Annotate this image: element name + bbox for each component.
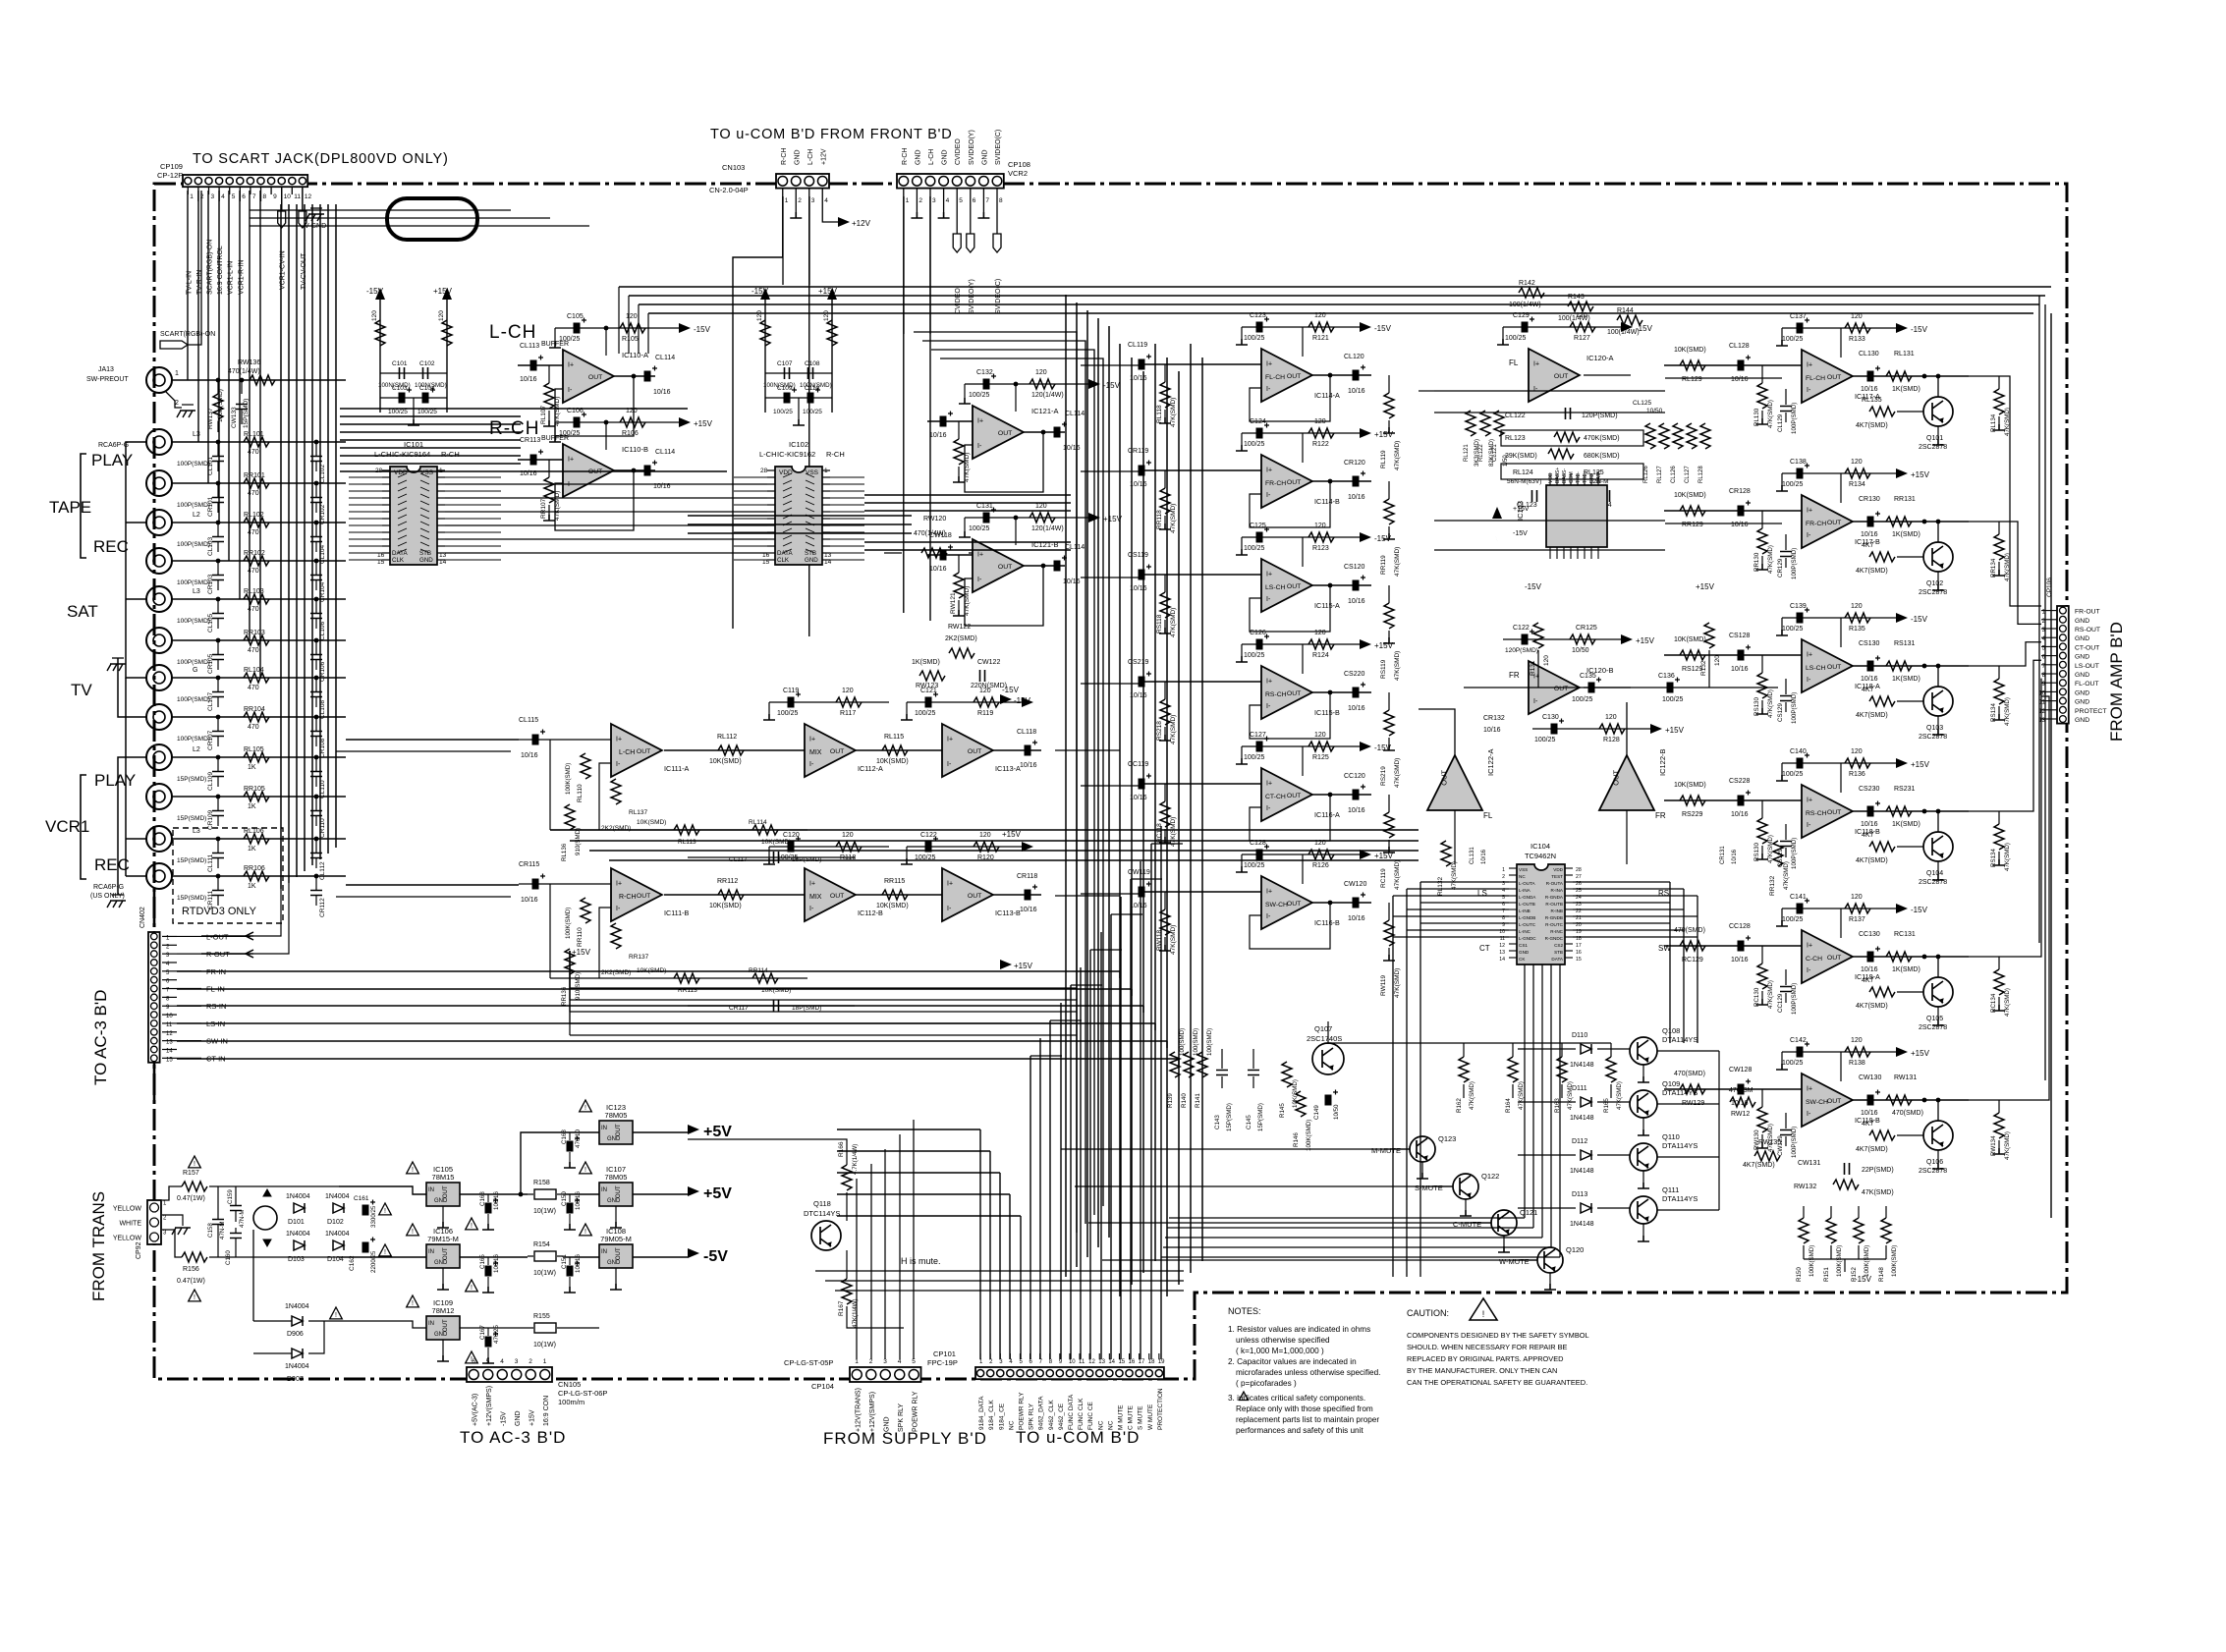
svg-text:10K(SMD): 10K(SMD)	[761, 839, 791, 846]
svg-text:12: 12	[1088, 1359, 1095, 1365]
svg-text:VSS: VSS	[1519, 867, 1528, 872]
svg-text:CL114: CL114	[655, 449, 675, 456]
svg-text:IN: IN	[601, 1187, 607, 1193]
svg-text:OUT: OUT	[1827, 520, 1841, 526]
svg-text:C122: C122	[1513, 625, 1530, 632]
svg-text:IC111-B: IC111-B	[664, 909, 690, 917]
svg-text:CR131: CR131	[1720, 846, 1726, 864]
svg-text:OUT: OUT	[968, 748, 981, 755]
svg-text:100P(SMD): 100P(SMD)	[1791, 548, 1798, 579]
svg-text:+15V: +15V	[1636, 636, 1655, 645]
svg-text:19: 19	[1158, 1359, 1165, 1365]
svg-text:I-: I-	[1266, 386, 1271, 393]
svg-text:R155: R155	[533, 1313, 550, 1320]
svg-text:G: G	[193, 667, 197, 674]
svg-text:DTA114YS: DTA114YS	[1662, 1035, 1697, 1044]
svg-text:10/16: 10/16	[1483, 727, 1501, 734]
svg-text:I-: I-	[1266, 805, 1271, 812]
svg-text:I-: I-	[616, 906, 621, 912]
svg-text:FR-CH: FR-CH	[1265, 480, 1286, 487]
svg-text:C141: C141	[1790, 894, 1807, 901]
svg-text:!: !	[412, 1167, 414, 1174]
svg-text:3: 3	[211, 193, 215, 200]
svg-text:47K(SMD): 47K(SMD)	[1518, 1081, 1525, 1110]
svg-text:C130: C130	[1542, 714, 1559, 721]
svg-text:120: 120	[1851, 603, 1863, 610]
svg-text:1N4148: 1N4148	[1570, 1115, 1594, 1122]
svg-text:VDD: VDD	[394, 469, 408, 476]
svg-text:C135: C135	[1580, 673, 1596, 680]
svg-text:100P(SMD): 100P(SMD)	[1791, 1127, 1798, 1158]
svg-text:11: 11	[1079, 1359, 1085, 1365]
svg-text:4: 4	[221, 193, 225, 200]
svg-text:CW133: CW133	[231, 407, 238, 428]
svg-text:1N4004: 1N4004	[286, 1231, 310, 1238]
svg-text:I+: I+	[1266, 571, 1272, 578]
svg-text:I+: I+	[1266, 888, 1272, 895]
svg-text:R162: R162	[1456, 1098, 1463, 1113]
svg-text:L3: L3	[193, 431, 200, 438]
svg-text:Q123: Q123	[1438, 1134, 1456, 1143]
svg-text:C125: C125	[1250, 523, 1266, 529]
svg-text:RC118: RC118	[1156, 823, 1163, 843]
svg-text:9462_CLK: 9462_CLK	[1048, 1400, 1055, 1430]
svg-text:IC110-B: IC110-B	[622, 445, 648, 454]
svg-text:100K(SMD): 100K(SMD)	[1864, 1245, 1870, 1277]
svg-text:GND: GND	[434, 1260, 448, 1266]
svg-text:RW119: RW119	[1380, 975, 1387, 996]
svg-text:1N4004: 1N4004	[285, 1363, 309, 1370]
svg-text:FROM SUPPLY B'D: FROM SUPPLY B'D	[823, 1429, 987, 1448]
svg-text:I-: I-	[616, 761, 621, 768]
svg-text:Q102: Q102	[1926, 580, 1943, 587]
svg-text:100K(SMD): 100K(SMD)	[1809, 1245, 1815, 1277]
svg-text:100(SMD): 100(SMD)	[1206, 1028, 1213, 1056]
svg-text:120: 120	[438, 310, 445, 321]
svg-text:L2: L2	[193, 512, 200, 519]
svg-text:10/16: 10/16	[1861, 676, 1878, 683]
svg-text:100P(SMD): 100P(SMD)	[1791, 838, 1798, 869]
svg-text:CW120: CW120	[1344, 881, 1366, 888]
svg-text:R123: R123	[1312, 545, 1329, 552]
svg-text:1: 1	[785, 197, 789, 204]
svg-text:+12V: +12V	[820, 148, 827, 165]
svg-text:28: 28	[1576, 867, 1582, 873]
svg-text:RL114: RL114	[749, 819, 767, 826]
svg-text:DTC114YS: DTC114YS	[804, 1209, 840, 1218]
svg-text:OUT: OUT	[616, 1185, 622, 1198]
svg-text:R138: R138	[1849, 1060, 1865, 1067]
svg-text:120: 120	[371, 310, 378, 321]
svg-text:10K(SMD): 10K(SMD)	[1674, 347, 1706, 354]
svg-text:GND: GND	[2075, 672, 2089, 679]
svg-text:L3: L3	[193, 828, 200, 835]
svg-text:L-GNDB: L-GNDB	[1519, 915, 1535, 920]
svg-text:SVIDEO(C): SVIDEO(C)	[995, 279, 1002, 314]
svg-text:470(1/4W): 470(1/4W)	[228, 368, 260, 375]
svg-text:Q104: Q104	[1926, 870, 1943, 877]
svg-text:CL119: CL119	[1128, 342, 1147, 349]
svg-text:+12V(TRANS): +12V(TRANS)	[855, 1388, 862, 1432]
svg-text:470/10: 470/10	[575, 1129, 582, 1148]
svg-text:+12V: +12V	[852, 219, 871, 228]
svg-text:IC113-B: IC113-B	[995, 909, 1021, 917]
svg-text:100P(SMD): 100P(SMD)	[177, 502, 210, 509]
svg-text:OUT: OUT	[1287, 901, 1301, 908]
svg-text:RR134: RR134	[1990, 558, 1997, 578]
svg-text:RL119: RL119	[1380, 450, 1387, 468]
svg-text:!: !	[1482, 1309, 1485, 1319]
svg-text:RL132: RL132	[1437, 876, 1444, 896]
svg-text:100K(SMD): 100K(SMD)	[1891, 1245, 1898, 1277]
svg-text:CL113: CL113	[520, 343, 539, 350]
svg-text:DATA: DATA	[1551, 957, 1564, 962]
svg-text:3: 3	[811, 197, 815, 204]
svg-text:DTA114YS: DTA114YS	[1662, 1194, 1697, 1203]
svg-text:100/16: 100/16	[493, 1191, 500, 1210]
svg-text:H is mute.: H is mute.	[901, 1256, 941, 1266]
svg-text:NOTES:: NOTES:	[1228, 1306, 1261, 1316]
svg-text:4K7: 4K7	[1862, 687, 1874, 693]
svg-text:MIX: MIX	[809, 749, 822, 756]
svg-text:100/25: 100/25	[1782, 626, 1804, 633]
svg-text:RR112: RR112	[717, 878, 738, 885]
svg-text:I-: I-	[568, 387, 573, 394]
svg-text:-15V: -15V	[366, 287, 384, 296]
svg-text:I-: I-	[1533, 698, 1538, 705]
svg-text:7: 7	[252, 193, 256, 200]
svg-text:RS218: RS218	[1156, 721, 1163, 741]
svg-text:CW130: CW130	[1859, 1074, 1881, 1081]
svg-text:4K7(SMD): 4K7(SMD)	[1743, 1162, 1775, 1169]
svg-text:( k=1,000 M=1,000,000 ): ( k=1,000 M=1,000,000 )	[1236, 1347, 1324, 1355]
svg-text:FL-CH: FL-CH	[1265, 374, 1285, 381]
svg-text:120: 120	[842, 688, 854, 694]
svg-text:PLAY: PLAY	[91, 451, 133, 469]
svg-text:R141: R141	[1195, 1093, 1201, 1108]
svg-text:C MUTE: C MUTE	[1128, 1404, 1135, 1430]
svg-text:13: 13	[1499, 950, 1505, 956]
svg-text:17: 17	[1139, 1359, 1145, 1365]
svg-text:TO u-COM B'D FROM FRONT B'D: TO u-COM B'D FROM FRONT B'D	[710, 127, 953, 142]
svg-text:( p=picofarades ): ( p=picofarades )	[1236, 1379, 1297, 1388]
svg-text:CP92: CP92	[136, 1241, 142, 1259]
svg-text:120: 120	[1543, 655, 1550, 666]
svg-text:3. indicates critical safet: 3. indicates critical safety components.	[1228, 1394, 1365, 1403]
svg-text:16: 16	[1129, 1359, 1136, 1365]
svg-text:GND: GND	[607, 1136, 621, 1142]
svg-text:TV: TV	[71, 681, 92, 699]
svg-text:D907: D907	[287, 1376, 304, 1383]
svg-text:OUT: OUT	[588, 374, 602, 381]
svg-text:+15V: +15V	[694, 419, 713, 428]
svg-text:6: 6	[242, 193, 246, 200]
svg-text:C160: C160	[225, 1250, 232, 1265]
svg-text:+15V: +15V	[1014, 962, 1033, 970]
svg-text:100/25: 100/25	[969, 525, 990, 532]
svg-text:CT: CT	[1479, 944, 1490, 953]
svg-text:RL129: RL129	[1682, 376, 1702, 383]
svg-text:-15V: -15V	[1911, 906, 1928, 914]
svg-text:910(SMD): 910(SMD)	[575, 972, 582, 1000]
svg-text:4K7: 4K7	[1862, 1121, 1874, 1128]
svg-text:47K(SMD): 47K(SMD)	[1170, 925, 1177, 955]
svg-text:OUT: OUT	[1827, 1098, 1841, 1105]
svg-text:10(1W): 10(1W)	[533, 1270, 556, 1277]
svg-text:FR-OUT: FR-OUT	[2075, 609, 2100, 616]
svg-text:CR130: CR130	[1859, 496, 1880, 503]
svg-text:RL123: RL123	[1505, 435, 1526, 442]
svg-text:GND: GND	[607, 1260, 621, 1266]
svg-text:RC129: RC129	[1682, 957, 1703, 964]
svg-text:!: !	[194, 1294, 195, 1301]
svg-text:Q121: Q121	[1520, 1208, 1537, 1217]
svg-text:47K(SMD): 47K(SMD)	[1767, 400, 1774, 428]
svg-text:470K(SMD): 470K(SMD)	[1584, 435, 1620, 442]
svg-text:R117: R117	[840, 710, 856, 717]
svg-text:SPK RLY: SPK RLY	[898, 1404, 905, 1432]
svg-text:CC119: CC119	[1128, 761, 1148, 768]
svg-text:120(1/4W): 120(1/4W)	[1031, 525, 1064, 532]
svg-text:RW135: RW135	[1758, 1139, 1781, 1146]
svg-text:I+: I+	[568, 361, 574, 368]
svg-text:I+: I+	[616, 880, 622, 887]
svg-text:100/25: 100/25	[1662, 696, 1684, 703]
svg-text:C132: C132	[976, 369, 993, 376]
svg-text:10/16: 10/16	[1861, 1110, 1878, 1117]
svg-text:C110: C110	[805, 385, 819, 392]
svg-text:GND: GND	[2075, 618, 2089, 625]
svg-text:C107: C107	[777, 360, 793, 367]
svg-text:15P(SMD): 15P(SMD)	[1257, 1103, 1264, 1131]
svg-text:Q101: Q101	[1926, 435, 1943, 442]
svg-text:39K(SMD): 39K(SMD)	[1505, 453, 1537, 460]
svg-text:(US ONLY): (US ONLY)	[90, 893, 125, 900]
svg-text:C165: C165	[479, 1254, 486, 1269]
svg-text:D110: D110	[1572, 1032, 1587, 1039]
svg-text:10/16: 10/16	[1861, 531, 1878, 538]
svg-text:+5V: +5V	[703, 1124, 732, 1140]
svg-text:RS219: RS219	[1380, 766, 1387, 786]
svg-text:100(SMD): 100(SMD)	[1179, 1028, 1186, 1056]
svg-text:-15V: -15V	[500, 1411, 507, 1426]
svg-text:-15V: -15V	[1855, 1275, 1872, 1284]
svg-text:OUT: OUT	[637, 748, 650, 755]
svg-text:120: 120	[1314, 418, 1326, 425]
svg-text:10/16: 10/16	[929, 566, 947, 573]
svg-text:10/16: 10/16	[1020, 762, 1037, 769]
svg-text:C158: C158	[207, 1223, 214, 1238]
svg-text:100/25: 100/25	[1505, 335, 1527, 342]
svg-text:C142: C142	[1790, 1037, 1807, 1044]
svg-text:OUT: OUT	[1287, 793, 1301, 799]
svg-text:-15V: -15V	[1525, 582, 1542, 591]
svg-text:VCR1: VCR1	[45, 817, 89, 836]
svg-text:IC111-A: IC111-A	[664, 764, 690, 773]
svg-text:I-: I-	[1807, 387, 1811, 394]
svg-text:10/16: 10/16	[521, 897, 538, 904]
svg-text:R-CH: R-CH	[781, 148, 788, 166]
svg-text:R135: R135	[1849, 626, 1865, 633]
svg-text:OUT: OUT	[1287, 583, 1301, 590]
svg-text:!: !	[584, 1167, 586, 1174]
svg-text:C124: C124	[1250, 418, 1266, 425]
svg-text:RL135: RL135	[1862, 397, 1882, 404]
svg-text:RW12: RW12	[1731, 1111, 1750, 1118]
svg-text:16:9 CON: 16:9 CON	[543, 1396, 550, 1426]
svg-text:R157: R157	[183, 1170, 199, 1177]
svg-text:L-CH: L-CH	[619, 749, 635, 756]
svg-text:2: 2	[1502, 874, 1505, 880]
svg-text:RR107: RR107	[540, 498, 547, 519]
svg-text:IC110-A: IC110-A	[622, 351, 648, 359]
svg-text:NC: NC	[1519, 874, 1526, 879]
svg-text:L-INB: L-INB	[1519, 909, 1530, 913]
svg-text:R132: R132	[1700, 660, 1707, 676]
svg-text:1: 1	[543, 1358, 547, 1365]
svg-text:CL118: CL118	[1017, 729, 1036, 736]
svg-text:C105: C105	[567, 313, 584, 320]
svg-text:L-CH: L-CH	[759, 450, 777, 459]
svg-text:47K(SMD): 47K(SMD)	[1862, 1189, 1894, 1196]
svg-text:C167: C167	[479, 1325, 486, 1340]
svg-text:GND: GND	[1519, 950, 1530, 955]
svg-text:Q120: Q120	[1566, 1245, 1584, 1254]
svg-text:OUT: OUT	[998, 430, 1012, 437]
svg-text:D111: D111	[1572, 1085, 1587, 1092]
svg-text:I-: I-	[809, 906, 814, 912]
svg-text:CL122: CL122	[1505, 413, 1526, 419]
svg-text:CS230: CS230	[1859, 786, 1880, 793]
svg-text:RS: RS	[1658, 889, 1669, 898]
svg-text:R-CH: R-CH	[902, 148, 909, 166]
svg-text:120: 120	[979, 688, 991, 694]
svg-text:470(SMD): 470(SMD)	[1674, 1071, 1705, 1077]
svg-text:100/25: 100/25	[1244, 754, 1265, 761]
svg-text:10(1W): 10(1W)	[533, 1208, 556, 1215]
svg-text:SVIDEO(Y): SVIDEO(Y)	[969, 130, 975, 165]
svg-text:CS219: CS219	[1128, 659, 1149, 666]
svg-text:IC115-A: IC115-A	[1314, 601, 1340, 610]
svg-text:CR115: CR115	[519, 861, 539, 868]
svg-text:1K: 1K	[248, 803, 256, 810]
svg-text:BASS-: BASS-	[1562, 468, 1568, 483]
svg-text:CP-12P: CP-12P	[157, 171, 183, 180]
svg-text:15: 15	[1576, 957, 1582, 963]
svg-text:+5V(AC-3): +5V(AC-3)	[472, 1394, 478, 1426]
svg-text:9184_CLK: 9184_CLK	[988, 1400, 995, 1430]
svg-text:100K(SMD): 100K(SMD)	[565, 908, 572, 939]
svg-text:OUT: OUT	[1612, 770, 1621, 786]
svg-text:RR110: RR110	[577, 927, 584, 947]
svg-text:1: 1	[906, 197, 910, 204]
svg-text:L-CH: L-CH	[489, 322, 536, 343]
svg-text:R105: R105	[622, 336, 639, 343]
svg-text:FUNC DATA: FUNC DATA	[1068, 1394, 1075, 1430]
svg-text:IC114-A: IC114-A	[1314, 391, 1340, 400]
svg-text:OUT: OUT	[998, 564, 1012, 571]
svg-text:SPK RLY: SPK RLY	[1029, 1403, 1035, 1430]
svg-text:10/16: 10/16	[1731, 811, 1749, 818]
svg-text:IN: IN	[428, 1321, 434, 1327]
svg-text:R158: R158	[533, 1180, 550, 1186]
svg-text:CL125: CL125	[1633, 400, 1652, 407]
svg-text:I+: I+	[809, 880, 815, 887]
svg-text:RL128: RL128	[1698, 466, 1704, 483]
svg-text:10: 10	[1069, 1359, 1076, 1365]
svg-text:47N-M: 47N-M	[219, 1221, 226, 1239]
svg-text:100P(SMD): 100P(SMD)	[177, 461, 210, 468]
svg-text:CS228: CS228	[1729, 778, 1751, 785]
svg-text:RCA6P-G: RCA6P-G	[98, 442, 129, 449]
svg-text:CL111: CL111	[207, 854, 214, 872]
svg-text:L-OUTB: L-OUTB	[1519, 902, 1535, 907]
svg-text:4: 4	[946, 197, 950, 204]
svg-text:FPC-19P: FPC-19P	[927, 1358, 958, 1367]
svg-text:LS: LS	[1477, 889, 1487, 898]
svg-text:S-MUTE: S-MUTE	[1415, 1184, 1443, 1192]
svg-text:I-: I-	[1533, 386, 1538, 393]
svg-text:CR109: CR109	[207, 809, 214, 830]
svg-text:RR131: RR131	[1894, 496, 1916, 503]
svg-text:CR132: CR132	[1483, 715, 1505, 722]
svg-text:RC130: RC130	[1753, 987, 1760, 1007]
svg-text:120: 120	[756, 310, 763, 321]
svg-text:R-INB: R-INB	[1550, 909, 1563, 913]
svg-text:470(SM: 470(SM	[1729, 1087, 1753, 1094]
svg-text:CS120: CS120	[1344, 564, 1365, 571]
svg-text:D906: D906	[287, 1331, 304, 1338]
svg-text:100/25: 100/25	[1782, 336, 1804, 343]
svg-text:TRE+: TRE+	[1583, 470, 1588, 483]
svg-text:4K7(SMD): 4K7(SMD)	[1856, 568, 1888, 575]
svg-text:R145: R145	[1279, 1103, 1286, 1118]
svg-text:REPLACED BY ORIGINAL PARTS. AP: REPLACED BY ORIGINAL PARTS. APPROVED	[1407, 1354, 1564, 1363]
svg-text:RL122: RL122	[1478, 444, 1484, 462]
svg-text:!: !	[194, 1161, 195, 1168]
svg-text:100/25: 100/25	[777, 710, 799, 717]
svg-text:CL128: CL128	[1729, 343, 1750, 350]
svg-text:47K(SMD): 47K(SMD)	[1394, 651, 1401, 681]
svg-text:R167: R167	[838, 1300, 845, 1316]
svg-text:CN-2.0-04P: CN-2.0-04P	[709, 186, 749, 194]
svg-text:47K(SMD): 47K(SMD)	[1394, 547, 1401, 577]
svg-text:120: 120	[1851, 748, 1863, 755]
svg-text:47K(SMD): 47K(SMD)	[1170, 504, 1177, 533]
svg-text:4K7(SMD): 4K7(SMD)	[1856, 857, 1888, 864]
svg-text:OUT: OUT	[1554, 373, 1568, 380]
svg-text:10/16: 10/16	[521, 752, 538, 759]
svg-text:GND: GND	[981, 149, 988, 165]
svg-text:2: 2	[529, 1358, 532, 1365]
svg-text:10/16: 10/16	[1731, 957, 1749, 964]
svg-text:OUT: OUT	[443, 1247, 449, 1260]
svg-text:R-OUTB: R-OUTB	[1545, 902, 1563, 907]
svg-text:GND: GND	[515, 1410, 522, 1426]
svg-text:CW131: CW131	[1798, 1160, 1820, 1167]
svg-text:I+: I+	[1266, 467, 1272, 473]
svg-text:680K(SMD): 680K(SMD)	[1584, 453, 1620, 460]
svg-text:10K(SMD): 10K(SMD)	[709, 903, 742, 909]
svg-text:C120: C120	[783, 832, 800, 839]
svg-text:R-CH: R-CH	[826, 450, 845, 459]
svg-text:4K7(SMD): 4K7(SMD)	[1856, 1003, 1888, 1010]
svg-text:RL127: RL127	[1657, 466, 1663, 483]
svg-text:CL131: CL131	[1470, 847, 1475, 864]
svg-text:6: 6	[472, 1358, 475, 1365]
svg-text:4K7(SMD): 4K7(SMD)	[1856, 422, 1888, 429]
svg-text:470: 470	[248, 685, 259, 691]
